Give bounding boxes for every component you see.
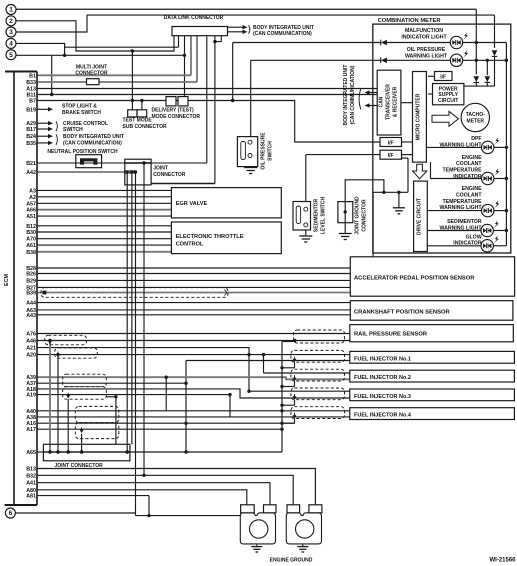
svg-text:DPF: DPF <box>471 136 481 142</box>
svg-text:CIRCUIT: CIRCUIT <box>438 98 458 104</box>
svg-text:NEUTRAL POSITION SWITCH: NEUTRAL POSITION SWITCH <box>47 149 118 155</box>
svg-text:B30: B30 <box>26 230 36 236</box>
svg-text:OIL PRESSURE: OIL PRESSURE <box>261 132 267 170</box>
svg-text:CONNECTOR: CONNECTOR <box>362 199 368 232</box>
svg-text:ENGINE: ENGINE <box>462 155 482 161</box>
svg-text:COOLANT: COOLANT <box>456 192 482 198</box>
svg-text:A38: A38 <box>26 415 36 421</box>
svg-text:SWITCH: SWITCH <box>63 127 83 133</box>
svg-text:JOINT CONNECTOR: JOINT CONNECTOR <box>55 463 104 469</box>
svg-text:SEDIMENTOR: SEDIMENTOR <box>314 198 320 232</box>
svg-text:COMBINATION METER: COMBINATION METER <box>378 18 442 24</box>
svg-text:B7: B7 <box>29 99 36 105</box>
svg-text:I/F: I/F <box>388 141 394 147</box>
svg-text:ACCELERATOR PEDAL POSITION SEN: ACCELERATOR PEDAL POSITION SENSOR <box>354 276 475 282</box>
svg-text:FUEL INJECTOR No.3: FUEL INJECTOR No.3 <box>354 394 411 400</box>
svg-text:5: 5 <box>9 52 13 59</box>
svg-text:DRIVE CIRCUIT: DRIVE CIRCUIT <box>416 198 422 235</box>
svg-text:A17: A17 <box>26 427 36 433</box>
svg-text:(CAN COMMUNICATION): (CAN COMMUNICATION) <box>253 31 312 37</box>
svg-text:ENGINE: ENGINE <box>462 186 482 192</box>
svg-text:RAIL PRESSURE SENSOR: RAIL PRESSURE SENSOR <box>354 332 428 338</box>
svg-text:B13: B13 <box>26 467 36 473</box>
svg-text:LEVEL SWITCH: LEVEL SWITCH <box>321 197 327 235</box>
svg-text:CRUISE CONTROL: CRUISE CONTROL <box>63 121 108 127</box>
svg-text:JOINT: JOINT <box>153 165 168 171</box>
svg-text:TEST MODE: TEST MODE <box>123 117 153 123</box>
svg-text:FUEL INJECTOR No.4: FUEL INJECTOR No.4 <box>354 413 412 419</box>
svg-text:2: 2 <box>9 18 13 25</box>
svg-text:CAN: CAN <box>379 96 385 107</box>
svg-text:JOINT GROUND: JOINT GROUND <box>355 196 361 235</box>
svg-text:MULTI JOINT: MULTI JOINT <box>76 64 107 70</box>
svg-text:ECM: ECM <box>4 274 10 286</box>
svg-text:SEDIMENTOR: SEDIMENTOR <box>447 219 482 225</box>
svg-text:A42: A42 <box>26 170 36 176</box>
svg-text:A2: A2 <box>29 195 36 201</box>
svg-text:A70: A70 <box>26 237 36 243</box>
svg-text:1: 1 <box>9 7 13 14</box>
svg-text:B38: B38 <box>26 250 36 256</box>
svg-text:I/F: I/F <box>440 74 446 80</box>
svg-text:A46: A46 <box>26 339 36 345</box>
svg-text:MODE CONNECTOR: MODE CONNECTOR <box>152 114 201 120</box>
svg-text:A57: A57 <box>26 201 36 207</box>
svg-text:SUB CONNECTOR: SUB CONNECTOR <box>123 124 167 130</box>
svg-text:(CAN COMMUNICATION): (CAN COMMUNICATION) <box>63 141 122 147</box>
svg-text:MICRO COMPUTER: MICRO COMPUTER <box>415 93 421 140</box>
svg-text:BODY INTEGRATED UNIT: BODY INTEGRATED UNIT <box>343 65 349 126</box>
svg-text:B29: B29 <box>26 278 36 284</box>
svg-text:B33: B33 <box>26 80 36 86</box>
svg-text:METER: METER <box>467 118 485 124</box>
svg-text:BODY INTEGRATED UNIT: BODY INTEGRATED UNIT <box>253 25 314 31</box>
svg-text:B19: B19 <box>26 107 36 113</box>
svg-text:WI-21566: WI-21566 <box>489 558 516 564</box>
svg-text:COOLANT: COOLANT <box>456 161 482 167</box>
svg-text:A81: A81 <box>26 494 36 500</box>
svg-text:TEMPERATURE: TEMPERATURE <box>442 199 482 205</box>
svg-text:TRANSCEIVER: TRANSCEIVER <box>386 84 392 120</box>
svg-text:DATA LINK CONNECTOR: DATA LINK CONNECTOR <box>164 15 224 21</box>
svg-text:STOP LIGHT &: STOP LIGHT & <box>62 104 97 110</box>
svg-text:A66: A66 <box>26 208 36 214</box>
svg-text:A20: A20 <box>26 353 36 359</box>
svg-text:INDICATOR: INDICATOR <box>453 174 482 180</box>
svg-text:FUEL INJECTOR No.2: FUEL INJECTOR No.2 <box>354 375 411 381</box>
svg-text:TEMPERATURE: TEMPERATURE <box>442 168 482 174</box>
svg-text:OIL PRESSURE: OIL PRESSURE <box>407 47 446 53</box>
svg-text:A19: A19 <box>26 393 36 399</box>
svg-text:EGR VALVE: EGR VALVE <box>176 201 208 207</box>
svg-text:A43: A43 <box>26 313 36 319</box>
svg-text:A41: A41 <box>26 481 36 487</box>
svg-text:INDICATOR LIGHT: INDICATOR LIGHT <box>401 34 447 40</box>
svg-text:B26: B26 <box>26 272 36 278</box>
svg-text:BODY INTEGRATED UNIT: BODY INTEGRATED UNIT <box>63 134 124 140</box>
svg-text:CRANKSHAFT POSITION SENSOR: CRANKSHAFT POSITION SENSOR <box>354 310 450 316</box>
svg-text:FUEL INJECTOR No.1: FUEL INJECTOR No.1 <box>354 356 411 362</box>
svg-text:6: 6 <box>9 510 13 517</box>
svg-text:(CAN COMMUNICATION): (CAN COMMUNICATION) <box>350 65 356 124</box>
svg-text:B24: B24 <box>26 134 36 140</box>
svg-text:A61: A61 <box>26 243 36 249</box>
svg-text:DELIVERY (TEST): DELIVERY (TEST) <box>152 107 195 113</box>
svg-text:B17: B17 <box>26 127 36 133</box>
svg-text:TACHO-: TACHO- <box>466 112 485 118</box>
svg-text:A21: A21 <box>26 346 36 352</box>
svg-text:ELECTRONIC THROTTLE: ELECTRONIC THROTTLE <box>176 234 244 240</box>
svg-text:GLOW: GLOW <box>465 234 481 240</box>
svg-text:WARNING LIGHT: WARNING LIGHT <box>405 53 448 59</box>
svg-text:A44: A44 <box>26 301 36 307</box>
svg-text:CONNECTOR: CONNECTOR <box>153 172 186 178</box>
svg-text:B1: B1 <box>29 73 36 79</box>
svg-text:A40: A40 <box>26 409 36 415</box>
svg-text:A3: A3 <box>29 188 36 194</box>
svg-text:& RECEIVER: & RECEIVER <box>393 86 399 117</box>
svg-text:I/F: I/F <box>388 153 394 159</box>
svg-text:B21: B21 <box>26 161 36 167</box>
svg-text:A65: A65 <box>26 450 36 456</box>
svg-text:A76: A76 <box>26 332 36 338</box>
svg-text:CONNECTOR: CONNECTOR <box>75 71 108 77</box>
svg-text:A51: A51 <box>26 214 36 220</box>
svg-text:B12: B12 <box>26 224 36 230</box>
svg-text:BRAKE SWITCH: BRAKE SWITCH <box>62 110 101 116</box>
svg-text:ENGINE GROUND: ENGINE GROUND <box>270 558 313 564</box>
svg-text:B39: B39 <box>26 291 36 297</box>
svg-text:B32: B32 <box>26 473 36 479</box>
svg-text:CONTROL: CONTROL <box>176 241 204 247</box>
svg-text:SWITCH: SWITCH <box>268 141 274 161</box>
svg-text:4: 4 <box>9 41 13 48</box>
svg-text:3: 3 <box>9 29 13 36</box>
svg-text:B35: B35 <box>26 141 36 147</box>
svg-text:MALFUNCTION: MALFUNCTION <box>405 28 443 34</box>
